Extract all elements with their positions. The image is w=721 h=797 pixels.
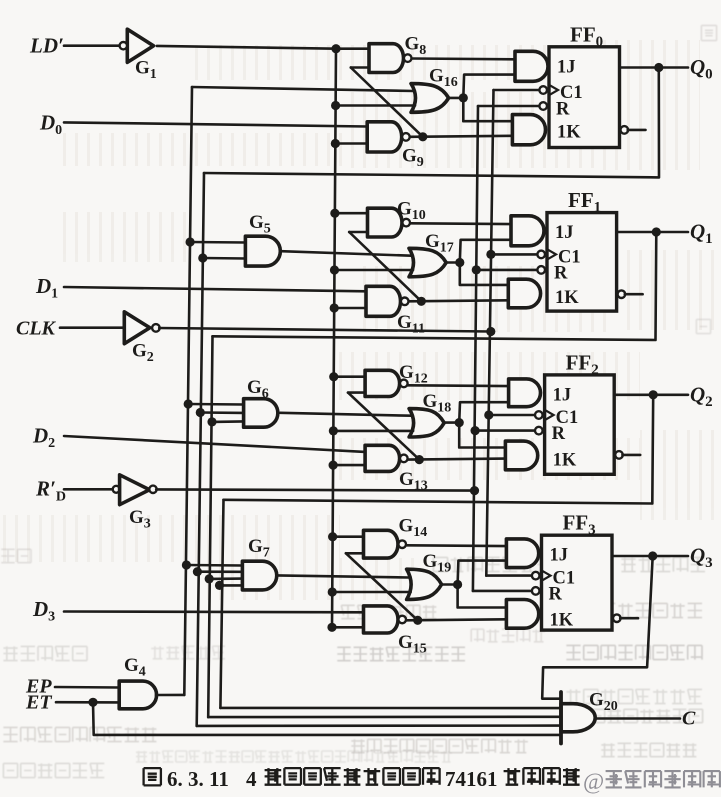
wire G6 input from Q0 bus [200,411,243,414]
wire Q2 to label [653,393,688,396]
wire LD bus to G8 upper input [336,47,369,50]
pin Q-bar bubble FF3 [613,614,621,622]
wire G15 output to 1K and-gate [406,619,506,620]
wire R bus vertical [473,106,478,591]
wire LD bus vertical from G1 output [332,49,336,628]
wire G12 lower input corner [348,391,365,394]
wire LD bus to G18 lower input [333,430,413,433]
wire Q-bar stub FF0 [628,129,646,132]
wire LD bus to G19 lower input [332,591,410,594]
node junction Q2 bus to G7 [215,581,224,590]
node junction LD bus to G17 [330,265,339,274]
wire G18 output up to 1J and-gate [459,402,508,422]
wire FF3 Q output [612,555,653,558]
wire Q2 bus to G20 [220,707,561,710]
wire CLK bus to FF3 C1 [486,574,532,577]
wire CLK bus to FF1 C1 [491,253,538,256]
and-gate 1J input FF1 [511,216,544,246]
pin R bubble FF1 [537,266,545,274]
wire Q-bar stub FF3 [620,617,638,620]
nand-gate G8 [369,44,404,73]
wire Q1 bus to G20 [208,715,561,718]
wire Q0 feedback down and left [204,68,659,178]
wire G4 output to enable bus [156,694,184,697]
wire LD bus to G9 lower input [335,142,367,145]
node junction Q0 bus to G7 [193,567,202,576]
wire G11 output to 1K and-gate [409,300,508,301]
svg-text:1K: 1K [553,450,577,470]
node junction LD bus to G16 [331,101,340,110]
wire Q1 to label [656,231,688,234]
svg-text:R: R [549,584,563,604]
svg-text:1K: 1K [555,288,579,308]
nand-gate G11 [366,286,401,316]
wire G18 output junction [444,421,459,424]
node junction LD bus to G12 [329,372,338,381]
wire ET to G4 [56,701,119,704]
wire D0 to G9 [64,122,367,126]
wire G9 output to 1K and-gate [410,136,512,137]
wire cross-couple diagonal from G13 output [348,393,419,460]
pin C1 edge triangle FF2 [545,410,554,420]
pin C1 edge triangle FF0 [549,85,558,95]
node junction LD bus to G19 [328,587,337,596]
node junction R bus FF2 [471,426,480,435]
wire Q0 to label [659,66,688,69]
wire G19 output up to 1J and-gate [458,561,507,585]
node junction R bus FF1 [472,265,481,274]
and-gate 1J input FF0 [515,51,548,81]
wire Q-bar stub FF2 [622,454,640,457]
svg-text:1J: 1J [553,385,572,405]
node junction G18 output [455,418,464,427]
node junction Q0 [654,63,663,72]
wire EP to G4 [55,686,119,689]
wire G7 input from Q0 bus [197,570,242,573]
wire enable bus top corner to G16 upper input [192,87,414,91]
node junction LD bus to G10 [330,209,339,218]
wire LD bus to G15 lower input [332,626,364,629]
node junction Q1 [652,227,661,236]
and-gate G7 [242,561,276,590]
node junction LD bus to G15 [327,623,336,632]
inverter G1 [127,29,153,62]
svg-text:4: 4 [246,767,257,791]
nand-gate G9 [367,122,402,152]
nand-gate G14 [364,530,398,558]
wire G16 output down to 1K and-gate [463,98,512,121]
wire G7 input from Q1 bus [209,577,242,580]
pin R bubble FF3 [532,587,540,595]
svg-text:R: R [556,100,570,120]
and-gate 1K input FF1 [508,279,540,308]
wire G13 output to 1K and-gate [408,459,505,460]
wire LD bus to G11 lower input [334,307,366,310]
pin C1 bubble FF0 [539,86,547,94]
wire D1 to G11 [64,287,366,291]
node junction G11 output [417,297,426,306]
wire LD bus to G14 upper input [333,535,364,538]
wire CLK bus to FF2 C1 [489,414,536,417]
wire Q3 feedback to G20 [542,556,653,699]
wire FF0 Q output [620,66,659,69]
wire G14 output to 1J and-gate [406,544,506,547]
and-gate 1K input FF0 [512,115,545,145]
wire G12 output to 1J and-gate [408,384,509,387]
wire FF1 Q output [617,231,657,234]
and-gate 1K input FF3 [506,600,538,629]
svg-text:1K: 1K [557,122,581,142]
wire G18 output down to 1K and-gate [459,423,505,448]
wire LD bus to G16 lower input [336,104,415,107]
wire LD bus to G10 upper input [335,212,368,215]
wire CLK bus vertical [486,90,493,576]
wire G2 output to CLK bus [159,328,491,332]
wire G7 input from Q2 bus [220,584,243,587]
pin C1 edge triangle FF3 [542,570,551,580]
and-gate 1K input FF2 [505,441,537,470]
wire FF2 Q output [614,393,653,396]
wire LD bus to G17 lower input [334,269,413,272]
node junction LD bus to G13 [329,461,338,470]
wire G7 output to G19 [277,575,408,577]
wire LD bus to G12 upper input [334,375,365,378]
wire Q0 feedback bus vertical [197,173,204,726]
wire Q2 feedback down and left [224,395,654,504]
node junction CLK bus FF2 [484,410,493,419]
wire G8 lower input corner [351,66,369,69]
wire G6 input from Q1 bus [212,420,244,423]
node junction enable bus to G5 [186,237,195,246]
nand-gate G15 [364,606,399,633]
node junction CLK bus FF1 [486,250,495,259]
inverter G3 [113,486,120,493]
wire cross-couple diagonal from G11 output [349,232,421,301]
wire G10 lower input corner [349,231,367,234]
wire Q1 feedback bus vertical [208,336,212,717]
svg-text:1K: 1K [550,611,574,631]
node junction enable bus to G6 [184,399,193,408]
wire RD' input [64,488,113,491]
node junction G16 output [459,93,468,102]
node junction LD bus top [331,44,340,53]
node junction LD bus to G9 [331,139,340,148]
pin R bubble FF0 [539,102,547,110]
or-gate G18 [409,409,444,437]
node junction G19 output [453,580,462,589]
svg-text:1J: 1J [557,57,576,77]
inverter G2 [124,312,150,344]
and-gate 1J input FF2 [509,379,541,407]
pin R bubble FF2 [535,427,543,435]
pin Q-bar bubble FF1 [618,290,626,298]
and-gate G5 [245,236,280,266]
pin Q-bar bubble FF0 [621,126,629,134]
wire G6 input from enable bus [188,403,243,406]
wire EP-ET enable bus vertical from G4 output [184,87,192,695]
svg-text:LD′: LD′ [29,34,64,58]
nand-gate G13 [365,445,400,471]
wire Q3 to label [653,555,688,558]
wire D2 to G13 [64,436,365,452]
wire G20 output to C [595,717,680,720]
node junction Q1 bus to G6 [207,417,216,426]
wire G16 output junction [449,97,464,100]
or-gate G17 [409,248,446,276]
wire Q-bar stub FF1 [625,293,643,296]
node junction G15 output [413,616,422,625]
svg-text:C: C [682,708,696,730]
wire R bus to FF2 R [475,429,535,432]
wire LD bus to G13 lower input [333,464,365,467]
wire cross-couple diagonal from G15 output [346,553,418,620]
wire G19 output down to 1K and-gate [458,585,507,608]
wire R bus to FF3 R [473,590,533,593]
wire Q0 bus to G20 [197,724,561,727]
wire G7 input from enable bus [186,564,242,567]
node junction RD wire to R bus [470,486,479,495]
svg-text:1J: 1J [555,223,574,243]
wire G16 output up to 1J and-gate [463,75,515,98]
or-gate G19 [407,569,442,599]
and-gate 1J input FF3 [506,539,538,568]
wire Q1 feedback down and left [213,232,657,340]
wire G5 output to G17 [281,251,411,256]
node junction G17 output [455,258,464,267]
node junction LD bus to G14 [328,532,337,541]
flip-flop FF2 box [545,375,615,474]
wire LD' input [64,44,121,47]
wire G14 lower input corner [346,552,364,555]
svg-text:CLK: CLK [16,318,57,340]
wire G19 output junction [442,583,458,586]
node junction CLK wire to CLK bus [486,327,495,336]
pin C1 bubble FF2 [535,411,543,419]
wire G10 output to 1J and-gate [410,222,511,225]
node junction LD bus to G18 [329,426,338,435]
node junction G13 output [415,455,424,464]
wire CLK input [60,326,124,329]
flip-flop FF0 box [549,47,620,148]
wire G1 output to LD bus [157,46,336,49]
wire G5 input from enable bus [190,241,245,244]
node junction enable bus to G7 [182,560,191,569]
wire cross-couple diagonal from G9 output [351,68,423,137]
svg-text:R: R [554,263,568,283]
wire G5 input from Q0 bus [203,257,246,260]
node junction Q2 [649,390,658,399]
node junction Q1 bus to G7 [205,574,214,583]
wire CLK bus to FF0 C1 [494,89,541,92]
wire G6 output to G18 [280,413,411,416]
wire G3 output to R bus [156,489,474,490]
caption figure number and title [144,767,580,791]
wire R bus to FF1 R [476,269,538,272]
flip-flop FF3 box [542,535,613,630]
wire G17 output down to 1K and-gate [460,263,509,285]
and-gate G6 [244,399,278,428]
node junction Q3 [648,551,657,560]
pin Q-bar bubble FF2 [615,451,623,459]
and-gate G20 [561,704,595,732]
wire G17 output up to 1J and-gate [460,240,511,263]
pin C1 bubble FF1 [537,251,545,259]
wire G17 output junction [446,261,460,264]
svg-text:74161: 74161 [445,767,498,791]
node junction G9 output [418,132,427,141]
wire ET tap down to G20 [93,702,561,735]
svg-text:ET: ET [25,692,52,714]
pin C1 edge triangle FF1 [547,249,556,259]
wire D3 to G15 [64,610,364,613]
nand-gate G12 [365,370,400,396]
wire Q2 feedback bus vertical [220,500,223,708]
node junction ET tap [88,698,97,707]
svg-text:@: @ [583,769,604,794]
wire G8 output to 1J and-gate [412,57,515,60]
watermark text [583,769,720,794]
flip-flop FF1 box [547,213,617,312]
and-gate G4 [119,681,156,709]
wire R bus to FF0 R [478,105,540,108]
pin C1 bubble FF3 [532,572,540,580]
svg-text:6. 3. 11: 6. 3. 11 [167,767,229,791]
svg-text:1J: 1J [550,546,569,566]
svg-text:R: R [552,424,566,444]
or-gate G16 [411,84,449,113]
node junction LD bus to G11 [330,303,339,312]
nand-gate G10 [368,208,403,237]
node junction Q0 bus to G5 [198,253,207,262]
node junction Q0 bus to G6 [196,408,205,417]
